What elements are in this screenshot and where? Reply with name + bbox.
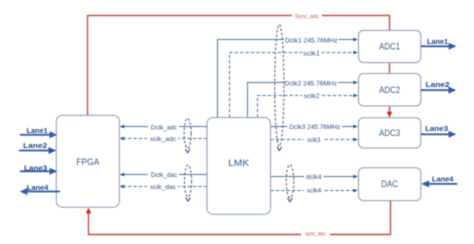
lane Lane1 out of ADC1 (right) (421, 39, 457, 50)
lane Lane2 into FPGA (left) (19, 143, 56, 154)
wire sclk2 LMK top to ADC2 (dashed) (258, 91, 358, 118)
svg-text:sclk2: sclk2 (304, 93, 320, 100)
svg-text:sclk_adc: sclk_adc (150, 136, 177, 143)
arrowhead red into FPGA bottom (86, 208, 92, 214)
block ADC2 (359, 74, 421, 107)
svg-text:Lane1: Lane1 (27, 128, 48, 135)
svg-text:Lane4: Lane4 (432, 176, 454, 183)
svg-text:Lane3: Lane3 (425, 126, 448, 133)
wire sclk3 LMK right to ADC3 (dashed) (271, 135, 358, 145)
lane Lane4 out of FPGA (left, pointing left) (20, 185, 60, 195)
block ADC1 (359, 30, 421, 62)
svg-text:Lane2: Lane2 (426, 82, 450, 89)
wire red ADC2 to ADC3 (389, 106, 391, 117)
lane Lane3 into FPGA (left) (20, 166, 57, 175)
svg-text:Dclk1 245.76MHz: Dclk1 245.76MHz (285, 37, 338, 44)
svg-text:DAC: DAC (381, 179, 398, 190)
svg-text:dclk4: dclk4 (306, 174, 322, 181)
wire red ADC1 to ADC2 (389, 63, 391, 74)
bundle ellipse adc clocks (FPGA-LMK) (184, 118, 191, 153)
svg-text:Lane3: Lane3 (24, 166, 47, 173)
bundle ellipse clocks 1-3 (tall) (275, 25, 284, 151)
wire Dclk2 LMK top to ADC2 (248, 78, 358, 117)
svg-text:sync_dac: sync_dac (305, 231, 326, 237)
wire Dclk_adc LMK to FPGA (120, 122, 207, 132)
block FPGA (56, 115, 119, 207)
wire Dclk1 LMK top to ADC1 (218, 35, 358, 117)
svg-text:Dclk2 245.76MHz: Dclk2 245.76MHz (285, 80, 338, 87)
wire sclk_dac LMK to FPGA (dashed) (120, 182, 207, 192)
wire Dclk_dac LMK to FPGA (120, 170, 207, 180)
block LMK (207, 118, 271, 215)
svg-text:Dclk3 245.76MHz: Dclk3 245.76MHz (289, 124, 341, 131)
wire sclk4 LMK right to DAC (dashed) (271, 186, 358, 196)
svg-text:ADC3: ADC3 (379, 128, 400, 139)
bundle ellipse dac clocks (FPGA-LMK) (185, 165, 192, 201)
lane Lane1 into FPGA (left) (20, 128, 57, 138)
wire sclk1 LMK top to ADC1 (dashed) (230, 48, 358, 117)
block DAC (359, 168, 421, 201)
lane Lane4 into DAC (right, pointing left) (421, 176, 457, 187)
lane Lane2 out of ADC2 (right) (421, 82, 457, 94)
svg-text:sclk3: sclk3 (307, 137, 321, 144)
wire sclk_adc LMK to FPGA (dashed) (120, 134, 207, 144)
wire sync_adc red net: FPGA top to ADC1 top (88, 11, 390, 115)
svg-text:ADC2: ADC2 (379, 85, 400, 96)
bundle ellipse dac clocks (LMK-DAC) (286, 165, 294, 202)
svg-text:Dclk_dac: Dclk_dac (151, 172, 178, 179)
block ADC3 (359, 118, 421, 148)
wire Dclk3 LMK right to ADC3 (271, 122, 358, 132)
wire dclk4 LMK right to DAC (271, 172, 358, 182)
svg-text:Sync_adc: Sync_adc (295, 14, 319, 20)
svg-text:sclk1: sclk1 (303, 50, 320, 57)
lane Lane3 out of ADC3 (right) (421, 126, 457, 138)
svg-text:Lane1: Lane1 (427, 39, 448, 46)
svg-text:ADC1: ADC1 (379, 42, 400, 53)
arrowhead red into ADC3 top (387, 112, 393, 118)
svg-text:Lane4: Lane4 (27, 185, 49, 192)
svg-text:sclk_dac: sclk_dac (150, 184, 177, 191)
wire sync_dac red net: DAC bottom to FPGA bottom (89, 201, 391, 238)
svg-text:LMK: LMK (228, 158, 250, 169)
svg-text:Lane2: Lane2 (23, 143, 47, 150)
svg-text:sclk4: sclk4 (307, 188, 322, 195)
svg-text:Dclk_adc: Dclk_adc (151, 124, 178, 131)
svg-text:FPGA: FPGA (76, 157, 100, 168)
